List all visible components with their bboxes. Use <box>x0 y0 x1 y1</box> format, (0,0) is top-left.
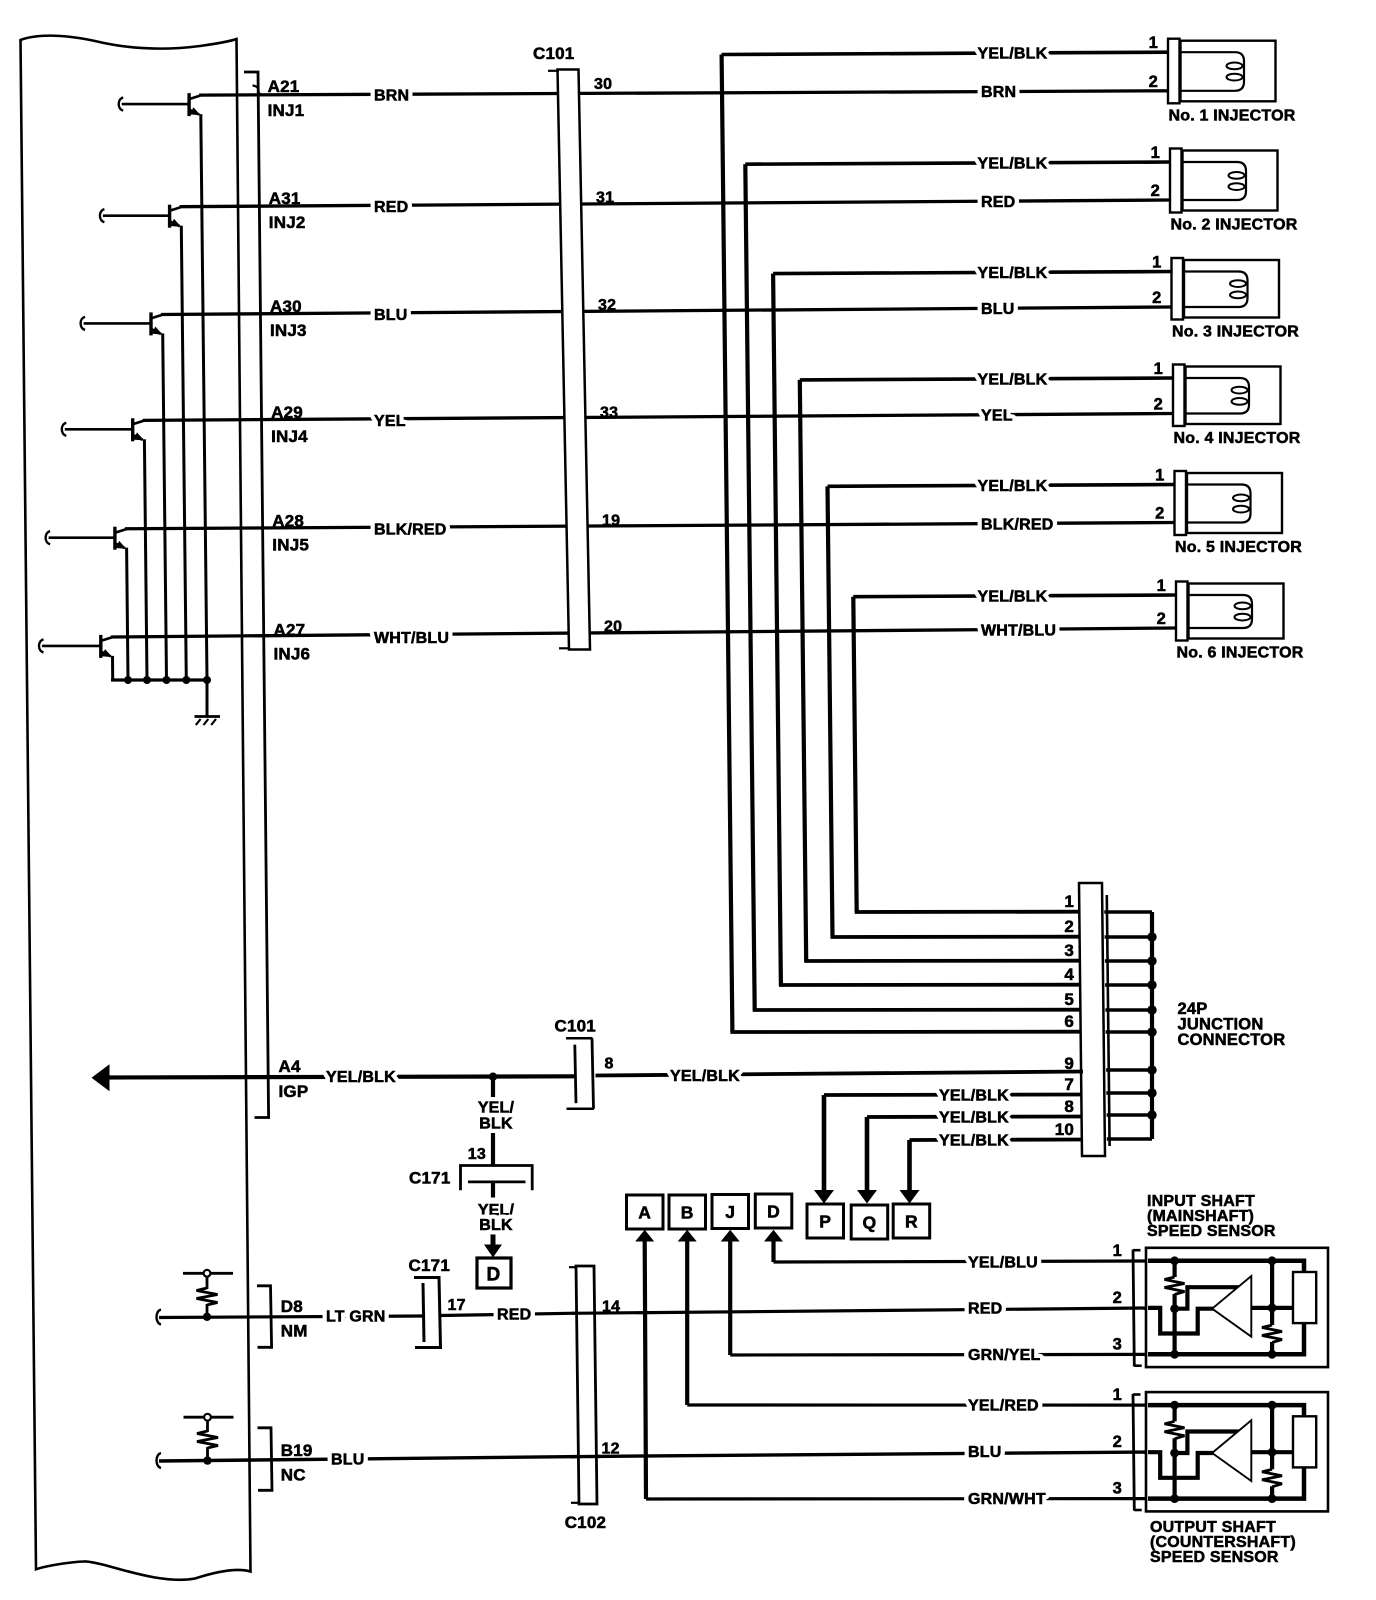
svg-text:YEL/RED: YEL/RED <box>968 1398 1039 1415</box>
svg-text:INJ6: INJ6 <box>274 645 311 664</box>
svg-text:1: 1 <box>1155 467 1164 485</box>
svg-text:9: 9 <box>1064 1054 1074 1073</box>
svg-text:BLK: BLK <box>479 1217 513 1234</box>
svg-text:7: 7 <box>1064 1075 1074 1094</box>
svg-text:2: 2 <box>1152 289 1161 307</box>
svg-text:3: 3 <box>1113 1480 1122 1498</box>
svg-text:D8: D8 <box>281 1297 303 1316</box>
svg-text:YEL/BLK: YEL/BLK <box>978 478 1048 495</box>
svg-text:A28: A28 <box>272 512 304 531</box>
svg-text:1: 1 <box>1152 254 1161 272</box>
svg-text:A27: A27 <box>274 621 306 640</box>
svg-text:YEL: YEL <box>981 408 1013 425</box>
svg-text:GRN/YEL: GRN/YEL <box>968 1347 1041 1364</box>
svg-text:No. 1 INJECTOR: No. 1 INJECTOR <box>1169 107 1296 124</box>
svg-text:NC: NC <box>281 1466 306 1485</box>
svg-text:A29: A29 <box>271 403 303 422</box>
svg-text:33: 33 <box>600 405 618 422</box>
svg-text:GRN/WHT: GRN/WHT <box>968 1491 1046 1508</box>
svg-text:INJ5: INJ5 <box>272 536 309 555</box>
svg-text:8: 8 <box>1064 1097 1074 1116</box>
svg-text:YEL/: YEL/ <box>478 1100 515 1117</box>
svg-text:LT GRN: LT GRN <box>326 1309 386 1326</box>
svg-text:YEL/BLK: YEL/BLK <box>939 1088 1009 1105</box>
svg-text:1: 1 <box>1154 360 1163 378</box>
svg-text:31: 31 <box>596 190 614 207</box>
svg-text:20: 20 <box>604 619 622 636</box>
svg-text:B19: B19 <box>281 1441 313 1460</box>
svg-text:YEL/BLK: YEL/BLK <box>978 46 1048 63</box>
svg-text:13: 13 <box>468 1146 486 1163</box>
svg-text:BLK/RED: BLK/RED <box>981 516 1054 533</box>
svg-text:RED: RED <box>374 199 408 216</box>
svg-text:CONNECTOR: CONNECTOR <box>1178 1031 1286 1049</box>
svg-text:RED: RED <box>968 1301 1002 1318</box>
svg-text:NM: NM <box>281 1322 308 1341</box>
svg-text:5: 5 <box>1064 990 1074 1009</box>
svg-text:1: 1 <box>1149 34 1158 52</box>
svg-text:3: 3 <box>1113 1335 1122 1353</box>
svg-text:2: 2 <box>1154 396 1163 414</box>
svg-text:SPEED SENSOR: SPEED SENSOR <box>1150 1549 1279 1566</box>
svg-text:12: 12 <box>602 1441 620 1458</box>
svg-text:B: B <box>681 1203 694 1223</box>
svg-text:C171: C171 <box>409 1169 450 1188</box>
svg-text:P: P <box>819 1212 831 1232</box>
svg-text:2: 2 <box>1155 505 1164 523</box>
svg-text:R: R <box>905 1212 918 1232</box>
svg-text:D: D <box>767 1202 780 1222</box>
svg-text:No. 4 INJECTOR: No. 4 INJECTOR <box>1174 430 1301 447</box>
svg-text:YEL/BLK: YEL/BLK <box>326 1069 396 1086</box>
svg-text:1: 1 <box>1113 1386 1122 1404</box>
svg-text:No. 2 INJECTOR: No. 2 INJECTOR <box>1171 217 1298 234</box>
svg-text:BLK/RED: BLK/RED <box>374 522 447 539</box>
svg-text:2: 2 <box>1151 182 1160 200</box>
svg-text:2: 2 <box>1064 917 1074 936</box>
svg-text:A21: A21 <box>268 77 300 96</box>
svg-text:J: J <box>725 1202 735 1222</box>
svg-text:YEL/BLK: YEL/BLK <box>670 1068 740 1085</box>
svg-text:YEL/BLK: YEL/BLK <box>978 265 1048 282</box>
svg-text:19: 19 <box>602 513 620 530</box>
svg-text:6: 6 <box>1064 1012 1074 1031</box>
svg-text:1: 1 <box>1157 577 1166 595</box>
svg-text:BLK: BLK <box>479 1116 513 1133</box>
svg-text:YEL/BLK: YEL/BLK <box>978 155 1048 172</box>
svg-text:1: 1 <box>1151 144 1160 162</box>
svg-text:2: 2 <box>1113 1433 1122 1451</box>
svg-text:C101: C101 <box>533 44 574 63</box>
svg-text:BLU: BLU <box>968 1444 1001 1461</box>
svg-text:3: 3 <box>1064 941 1074 960</box>
svg-text:A31: A31 <box>269 189 301 208</box>
svg-text:4: 4 <box>1064 965 1074 984</box>
svg-text:WHT/BLU: WHT/BLU <box>981 623 1056 640</box>
svg-text:8: 8 <box>605 1056 614 1073</box>
svg-text:A4: A4 <box>279 1057 301 1076</box>
svg-text:C102: C102 <box>565 1513 606 1532</box>
svg-text:INJ1: INJ1 <box>268 101 305 120</box>
svg-text:A30: A30 <box>270 297 302 316</box>
svg-text:BLU: BLU <box>981 301 1014 318</box>
svg-text:IGP: IGP <box>279 1082 309 1101</box>
svg-text:No. 5 INJECTOR: No. 5 INJECTOR <box>1175 539 1302 556</box>
svg-text:RED: RED <box>981 194 1015 211</box>
svg-text:32: 32 <box>598 297 616 314</box>
svg-text:No. 3 INJECTOR: No. 3 INJECTOR <box>1172 324 1299 341</box>
svg-text:YEL/BLK: YEL/BLK <box>939 1133 1009 1150</box>
svg-text:C171: C171 <box>409 1256 450 1275</box>
svg-text:RED: RED <box>497 1307 531 1324</box>
svg-text:1: 1 <box>1064 892 1074 911</box>
svg-text:WHT/BLU: WHT/BLU <box>374 630 449 647</box>
svg-text:Q: Q <box>862 1213 876 1233</box>
svg-text:No. 6 INJECTOR: No. 6 INJECTOR <box>1177 645 1304 662</box>
svg-text:BLU: BLU <box>331 1452 364 1469</box>
svg-text:INJ2: INJ2 <box>269 213 306 232</box>
svg-text:YEL/BLK: YEL/BLK <box>939 1110 1009 1127</box>
svg-text:BRN: BRN <box>981 84 1016 101</box>
svg-text:D: D <box>487 1265 501 1286</box>
svg-text:2: 2 <box>1113 1289 1122 1307</box>
svg-text:YEL: YEL <box>374 413 406 430</box>
svg-text:A: A <box>638 1203 651 1223</box>
svg-text:YEL/BLU: YEL/BLU <box>968 1255 1038 1272</box>
svg-text:INJ3: INJ3 <box>270 321 307 340</box>
svg-text:10: 10 <box>1055 1120 1074 1139</box>
svg-text:INJ4: INJ4 <box>271 427 308 446</box>
svg-text:YEL/BLK: YEL/BLK <box>978 588 1048 605</box>
svg-text:BRN: BRN <box>374 87 409 104</box>
svg-text:YEL/BLK: YEL/BLK <box>978 371 1048 388</box>
svg-text:1: 1 <box>1113 1242 1122 1260</box>
svg-text:17: 17 <box>448 1297 466 1314</box>
svg-text:C101: C101 <box>555 1017 596 1036</box>
svg-text:BLU: BLU <box>374 307 407 324</box>
svg-text:SPEED SENSOR: SPEED SENSOR <box>1147 1223 1276 1240</box>
svg-text:2: 2 <box>1149 73 1158 91</box>
svg-text:14: 14 <box>602 1299 620 1316</box>
svg-text:30: 30 <box>594 76 612 93</box>
svg-text:2: 2 <box>1157 610 1166 628</box>
